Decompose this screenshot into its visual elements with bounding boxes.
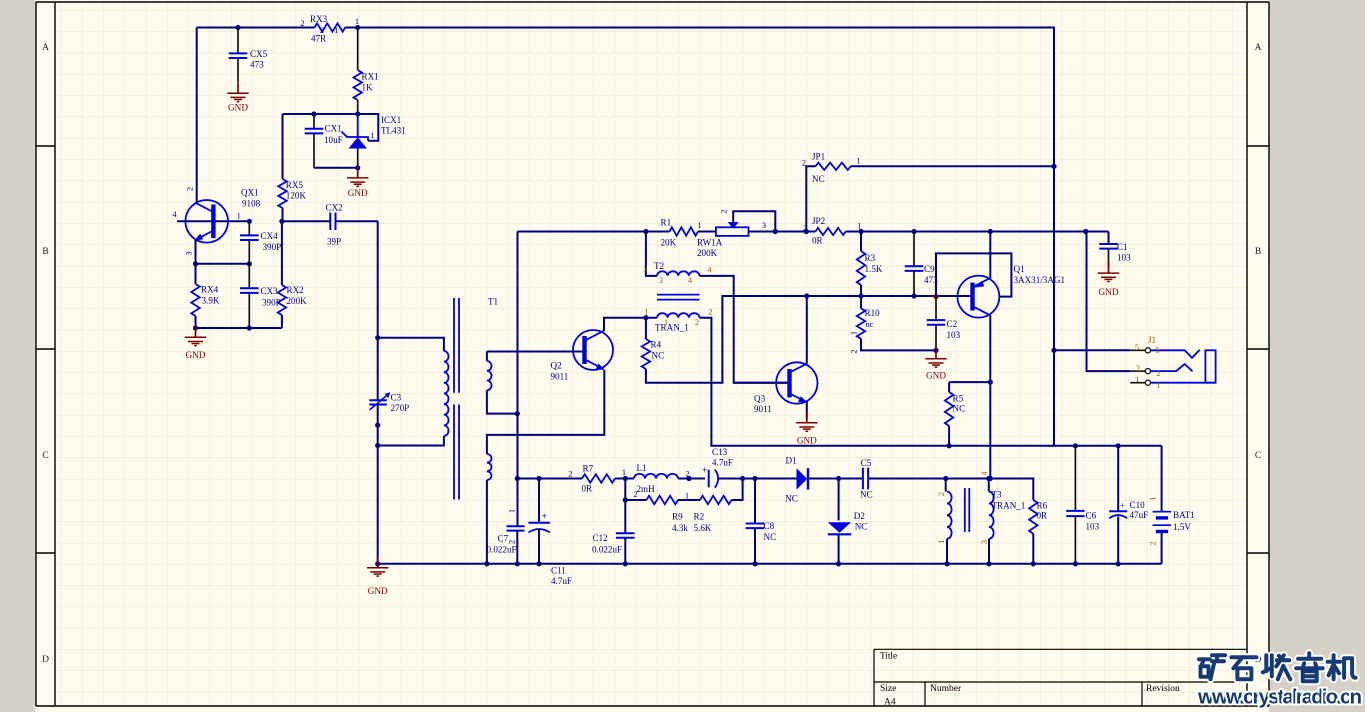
svg-text:C1: C1 bbox=[1117, 242, 1128, 252]
svg-text:9108: 9108 bbox=[242, 199, 261, 209]
svg-text:R4: R4 bbox=[651, 340, 662, 350]
svg-text:C: C bbox=[42, 451, 48, 461]
svg-text:1: 1 bbox=[1135, 375, 1139, 384]
svg-text:CX4: CX4 bbox=[261, 231, 279, 241]
svg-text:270P: 270P bbox=[391, 403, 410, 413]
svg-text:3: 3 bbox=[185, 251, 194, 255]
svg-text:NC: NC bbox=[855, 521, 868, 531]
svg-text:GND: GND bbox=[797, 436, 817, 446]
svg-text:C11: C11 bbox=[551, 566, 566, 576]
svg-text:A4: A4 bbox=[884, 698, 896, 708]
svg-text:GND: GND bbox=[348, 188, 368, 198]
svg-text:RX2: RX2 bbox=[287, 285, 305, 295]
svg-text:GND: GND bbox=[228, 103, 248, 113]
svg-text:TRAN_1: TRAN_1 bbox=[655, 323, 689, 333]
svg-text:5.6K: 5.6K bbox=[694, 523, 712, 533]
svg-text:2: 2 bbox=[186, 187, 195, 191]
svg-text:+: + bbox=[542, 512, 548, 523]
svg-text:GND: GND bbox=[368, 586, 388, 596]
svg-text:RW1A: RW1A bbox=[697, 237, 723, 247]
svg-text:2: 2 bbox=[803, 224, 807, 233]
svg-text:L1: L1 bbox=[637, 463, 647, 473]
svg-text:NC: NC bbox=[812, 174, 825, 184]
svg-text:1: 1 bbox=[237, 211, 241, 220]
svg-text:RX1: RX1 bbox=[362, 72, 379, 82]
svg-text:0R: 0R bbox=[1037, 511, 1049, 521]
svg-text:2: 2 bbox=[300, 19, 304, 28]
svg-text:T1: T1 bbox=[488, 297, 498, 307]
svg-text:1: 1 bbox=[685, 491, 689, 500]
svg-text:10uF: 10uF bbox=[324, 135, 343, 145]
svg-text:D: D bbox=[42, 655, 49, 665]
svg-text:2: 2 bbox=[937, 492, 946, 496]
svg-text:0.022uF: 0.022uF bbox=[487, 545, 517, 555]
svg-text:R5: R5 bbox=[953, 393, 964, 403]
svg-text:CX1: CX1 bbox=[325, 124, 342, 134]
svg-text:C9: C9 bbox=[924, 264, 935, 274]
svg-text:CX3: CX3 bbox=[261, 286, 279, 296]
svg-text:Number: Number bbox=[930, 684, 962, 694]
svg-text:4.7uF: 4.7uF bbox=[712, 458, 733, 468]
svg-text:NC: NC bbox=[785, 494, 798, 504]
svg-text:473: 473 bbox=[250, 60, 264, 70]
svg-text:4.7uF: 4.7uF bbox=[551, 576, 572, 586]
svg-text:1: 1 bbox=[1156, 381, 1160, 390]
svg-text:J1: J1 bbox=[1148, 335, 1156, 345]
svg-text:1.5V: 1.5V bbox=[1173, 522, 1191, 532]
svg-text:2: 2 bbox=[802, 158, 806, 167]
svg-text:2: 2 bbox=[1156, 369, 1160, 378]
svg-text:390P: 390P bbox=[263, 242, 282, 252]
svg-text:A: A bbox=[42, 43, 49, 53]
svg-text:2mH: 2mH bbox=[637, 484, 656, 494]
svg-text:BAT1: BAT1 bbox=[1173, 510, 1195, 520]
svg-text:NC: NC bbox=[860, 489, 873, 499]
svg-text:NC: NC bbox=[652, 351, 665, 361]
svg-text:JP2: JP2 bbox=[812, 216, 826, 226]
svg-text:NC: NC bbox=[953, 404, 966, 414]
svg-text:GND: GND bbox=[1099, 287, 1119, 297]
svg-text:20K: 20K bbox=[661, 238, 677, 248]
svg-text:C13: C13 bbox=[712, 447, 728, 457]
svg-text:Title: Title bbox=[880, 651, 897, 661]
svg-text:2: 2 bbox=[720, 209, 729, 213]
svg-text:2: 2 bbox=[1136, 364, 1140, 373]
svg-text:TL431: TL431 bbox=[381, 125, 406, 135]
svg-text:Revision: Revision bbox=[1146, 684, 1180, 694]
svg-text:NC: NC bbox=[764, 532, 777, 542]
svg-text:3: 3 bbox=[762, 221, 766, 230]
svg-text:R2: R2 bbox=[694, 512, 705, 522]
svg-text:A: A bbox=[1255, 43, 1262, 53]
svg-text:CX5: CX5 bbox=[250, 49, 268, 59]
svg-text:1: 1 bbox=[856, 156, 860, 165]
svg-text:1: 1 bbox=[508, 509, 517, 513]
svg-text:R7: R7 bbox=[583, 464, 594, 474]
svg-text:1.5K: 1.5K bbox=[865, 264, 883, 274]
svg-text:C10: C10 bbox=[1130, 500, 1146, 510]
svg-text:0.022uF: 0.022uF bbox=[592, 544, 622, 554]
svg-text:D1: D1 bbox=[786, 456, 797, 466]
svg-text:D2: D2 bbox=[854, 511, 866, 521]
svg-text:RX3: RX3 bbox=[310, 14, 328, 24]
svg-text:B: B bbox=[42, 247, 48, 257]
svg-text:Q1: Q1 bbox=[1014, 264, 1025, 274]
svg-text:T2: T2 bbox=[654, 261, 665, 271]
svg-text:47uF: 47uF bbox=[1130, 510, 1149, 520]
svg-text:C5: C5 bbox=[861, 458, 872, 468]
svg-text:1: 1 bbox=[370, 131, 374, 140]
svg-text:Size: Size bbox=[880, 684, 896, 694]
svg-text:nc: nc bbox=[866, 319, 874, 329]
svg-text:9011: 9011 bbox=[551, 372, 569, 382]
svg-text:200K: 200K bbox=[287, 296, 308, 306]
svg-text:0R: 0R bbox=[812, 236, 824, 246]
svg-text:GND: GND bbox=[926, 371, 946, 381]
svg-text:3: 3 bbox=[980, 540, 989, 544]
svg-text:+: + bbox=[702, 466, 708, 477]
svg-text:103: 103 bbox=[947, 330, 961, 340]
svg-text:B: B bbox=[1255, 247, 1261, 257]
svg-text:39P: 39P bbox=[327, 237, 341, 247]
svg-text:Q3: Q3 bbox=[754, 394, 766, 404]
svg-text:2: 2 bbox=[633, 490, 637, 499]
svg-text:200K: 200K bbox=[697, 248, 718, 258]
svg-text:1: 1 bbox=[644, 307, 648, 316]
svg-text:1: 1 bbox=[1149, 496, 1158, 500]
svg-text:RX4: RX4 bbox=[201, 285, 219, 295]
svg-text:CX2: CX2 bbox=[326, 203, 344, 213]
svg-text:R6: R6 bbox=[1037, 500, 1048, 510]
svg-text:1: 1 bbox=[622, 468, 626, 477]
svg-text:1: 1 bbox=[937, 539, 946, 543]
svg-text:1: 1 bbox=[850, 331, 859, 335]
svg-text:4: 4 bbox=[688, 276, 692, 285]
svg-text:3: 3 bbox=[659, 276, 663, 285]
svg-text:5: 5 bbox=[1155, 346, 1159, 355]
svg-text:QX1: QX1 bbox=[241, 188, 259, 198]
svg-text:1: 1 bbox=[355, 17, 359, 26]
svg-text:120K: 120K bbox=[286, 190, 307, 200]
svg-text:1: 1 bbox=[664, 318, 668, 327]
svg-text:1K: 1K bbox=[362, 83, 374, 93]
svg-text:9011: 9011 bbox=[754, 404, 772, 414]
svg-text:3.9K: 3.9K bbox=[202, 296, 220, 306]
svg-text:C: C bbox=[1255, 451, 1261, 461]
svg-text:C8: C8 bbox=[764, 521, 775, 531]
svg-text:ICX1: ICX1 bbox=[381, 115, 401, 125]
svg-text:2: 2 bbox=[695, 318, 699, 327]
svg-text:RX5: RX5 bbox=[286, 180, 304, 190]
svg-text:C6: C6 bbox=[1086, 511, 1097, 521]
svg-text:103: 103 bbox=[1117, 253, 1131, 263]
svg-text:www.crystalradio.cn: www.crystalradio.cn bbox=[1197, 686, 1362, 709]
svg-text:T3: T3 bbox=[992, 490, 1003, 500]
svg-text:R1: R1 bbox=[661, 218, 672, 228]
svg-text:+: + bbox=[1120, 501, 1125, 510]
svg-text:Q2: Q2 bbox=[551, 361, 563, 371]
svg-text:5: 5 bbox=[1135, 343, 1139, 352]
svg-text:R3: R3 bbox=[865, 253, 876, 263]
svg-text:GND: GND bbox=[186, 350, 206, 360]
svg-text:2: 2 bbox=[508, 540, 517, 544]
svg-text:TRAN_1: TRAN_1 bbox=[992, 500, 1026, 510]
svg-text:R9: R9 bbox=[672, 512, 683, 522]
svg-text:JP1: JP1 bbox=[812, 152, 825, 162]
svg-text:C3: C3 bbox=[391, 393, 402, 403]
svg-text:4.3k: 4.3k bbox=[672, 523, 688, 533]
svg-text:2: 2 bbox=[708, 308, 712, 317]
svg-text:3AX31/3AG1: 3AX31/3AG1 bbox=[1014, 275, 1066, 285]
svg-text:C2: C2 bbox=[947, 319, 958, 329]
svg-text:2: 2 bbox=[850, 349, 859, 353]
svg-text:2: 2 bbox=[568, 469, 572, 478]
svg-text:0R: 0R bbox=[582, 484, 594, 494]
svg-text:103: 103 bbox=[1086, 521, 1100, 531]
svg-text:47R: 47R bbox=[311, 34, 327, 44]
svg-text:R10: R10 bbox=[865, 308, 881, 318]
svg-text:3: 3 bbox=[643, 265, 647, 274]
svg-text:C12: C12 bbox=[593, 533, 609, 543]
svg-text:1: 1 bbox=[697, 221, 701, 230]
svg-text:2: 2 bbox=[1149, 541, 1158, 545]
